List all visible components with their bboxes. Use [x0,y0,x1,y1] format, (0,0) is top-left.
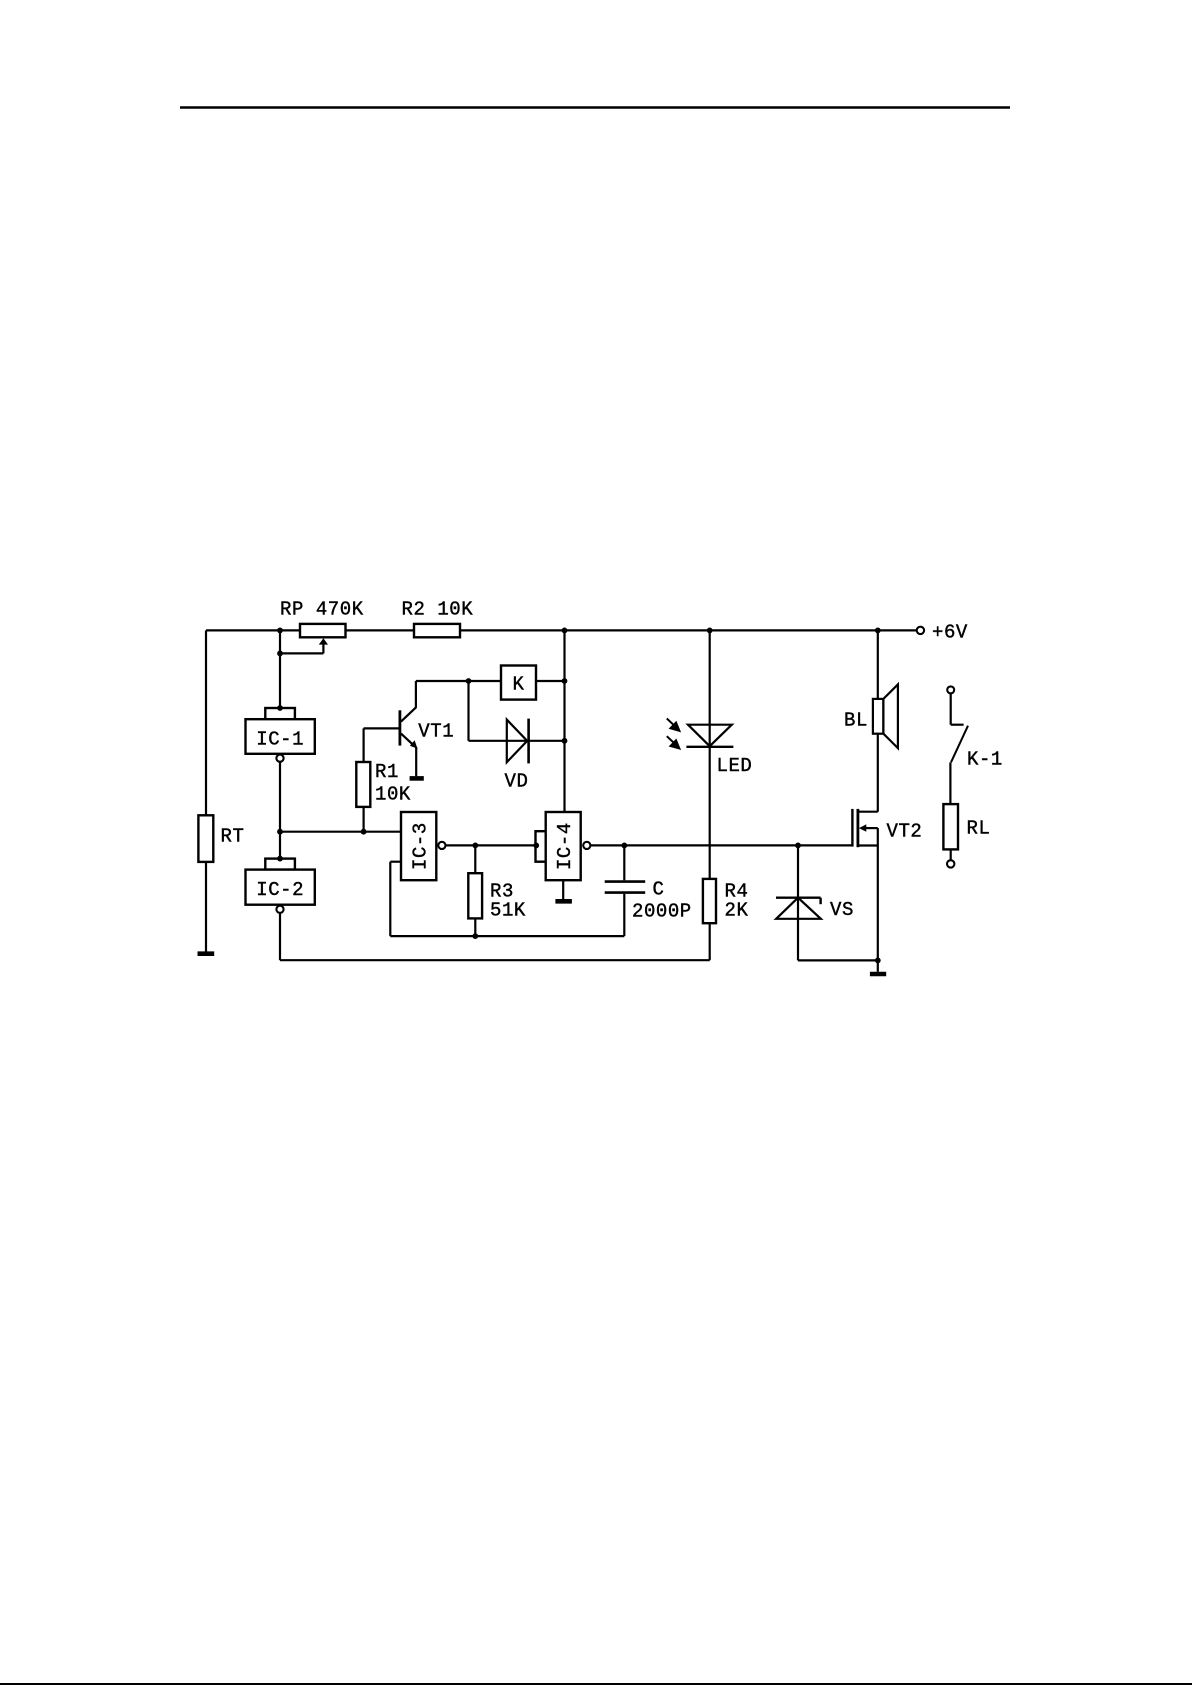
svg-text:IC-2: IC-2 [256,879,304,901]
svg-text:RL: RL [967,818,991,840]
svg-text:VD: VD [505,771,529,793]
svg-text:VT2: VT2 [887,821,923,843]
svg-text:K-1: K-1 [967,749,1003,771]
svg-text:2K: 2K [725,900,749,922]
svg-text:C: C [653,879,665,901]
svg-text:10K: 10K [375,784,411,806]
svg-text:+6V: +6V [932,622,968,644]
svg-text:LED: LED [717,755,753,777]
svg-text:RP 470K: RP 470K [280,599,364,621]
svg-text:VT1: VT1 [418,721,454,743]
svg-text:51K: 51K [490,900,526,922]
svg-text:IC-3: IC-3 [409,822,431,870]
svg-text:R2 10K: R2 10K [402,599,474,621]
svg-text:RT: RT [221,826,245,848]
svg-text:R1: R1 [375,761,399,783]
svg-text:K: K [513,674,525,696]
svg-text:IC-4: IC-4 [554,822,576,870]
svg-text:BL: BL [844,710,868,732]
svg-text:VS: VS [830,899,854,921]
svg-text:2000P: 2000P [632,901,692,923]
svg-text:IC-1: IC-1 [256,728,304,750]
